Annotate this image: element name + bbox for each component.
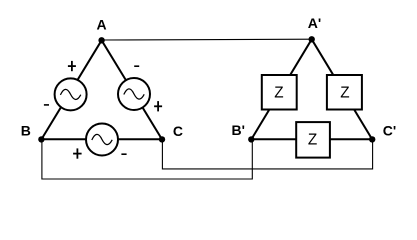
svg-text:B: B <box>21 123 31 139</box>
svg-text:Z: Z <box>274 84 283 101</box>
- polarity of source Vac <box>134 65 139 67</box>
+ polarity of source Vbc <box>73 148 82 158</box>
svg-text:A': A' <box>308 15 321 31</box>
impedance Z (B'-C' branch) <box>296 122 330 158</box>
svg-text:Z: Z <box>340 84 349 101</box>
node C <box>159 136 165 142</box>
impedance Z (A'-C' branch) <box>327 75 362 110</box>
wire A'-B' (right triangle side) <box>251 39 311 139</box>
wire A-B (left triangle side) <box>41 40 101 139</box>
node A' <box>309 36 315 42</box>
svg-text:B': B' <box>232 122 245 138</box>
node B' <box>248 136 254 142</box>
wire C to C' (bottom inner loop) <box>162 139 372 169</box>
AC source Vbc (circle with sine) <box>86 124 118 156</box>
wire B to B' (bottom outer loop) <box>42 139 252 179</box>
+ polarity of source Vac <box>154 101 162 111</box>
svg-text:C: C <box>173 123 183 139</box>
wire B'-C' (right triangle side) <box>251 138 372 140</box>
node A <box>98 37 104 43</box>
node C' <box>369 136 375 142</box>
wire A to A' (top line) <box>102 38 312 41</box>
wire A'-C' (right triangle side) <box>312 39 373 139</box>
+ polarity of source Vab <box>68 61 76 71</box>
- polarity of source Vbc <box>121 153 126 155</box>
impedance Z (A'-B' branch) <box>262 75 297 110</box>
wire A-C (left triangle side) <box>102 40 162 139</box>
AC source Vab (circle with sine) <box>55 78 87 110</box>
node B <box>38 136 44 142</box>
wire B-C (left triangle side) <box>41 138 162 140</box>
- polarity of source Vab <box>44 104 49 106</box>
svg-text:A: A <box>96 16 106 32</box>
AC source Vac (circle with sine) <box>118 78 150 110</box>
svg-text:Z: Z <box>308 132 317 149</box>
svg-text:C': C' <box>383 122 396 138</box>
